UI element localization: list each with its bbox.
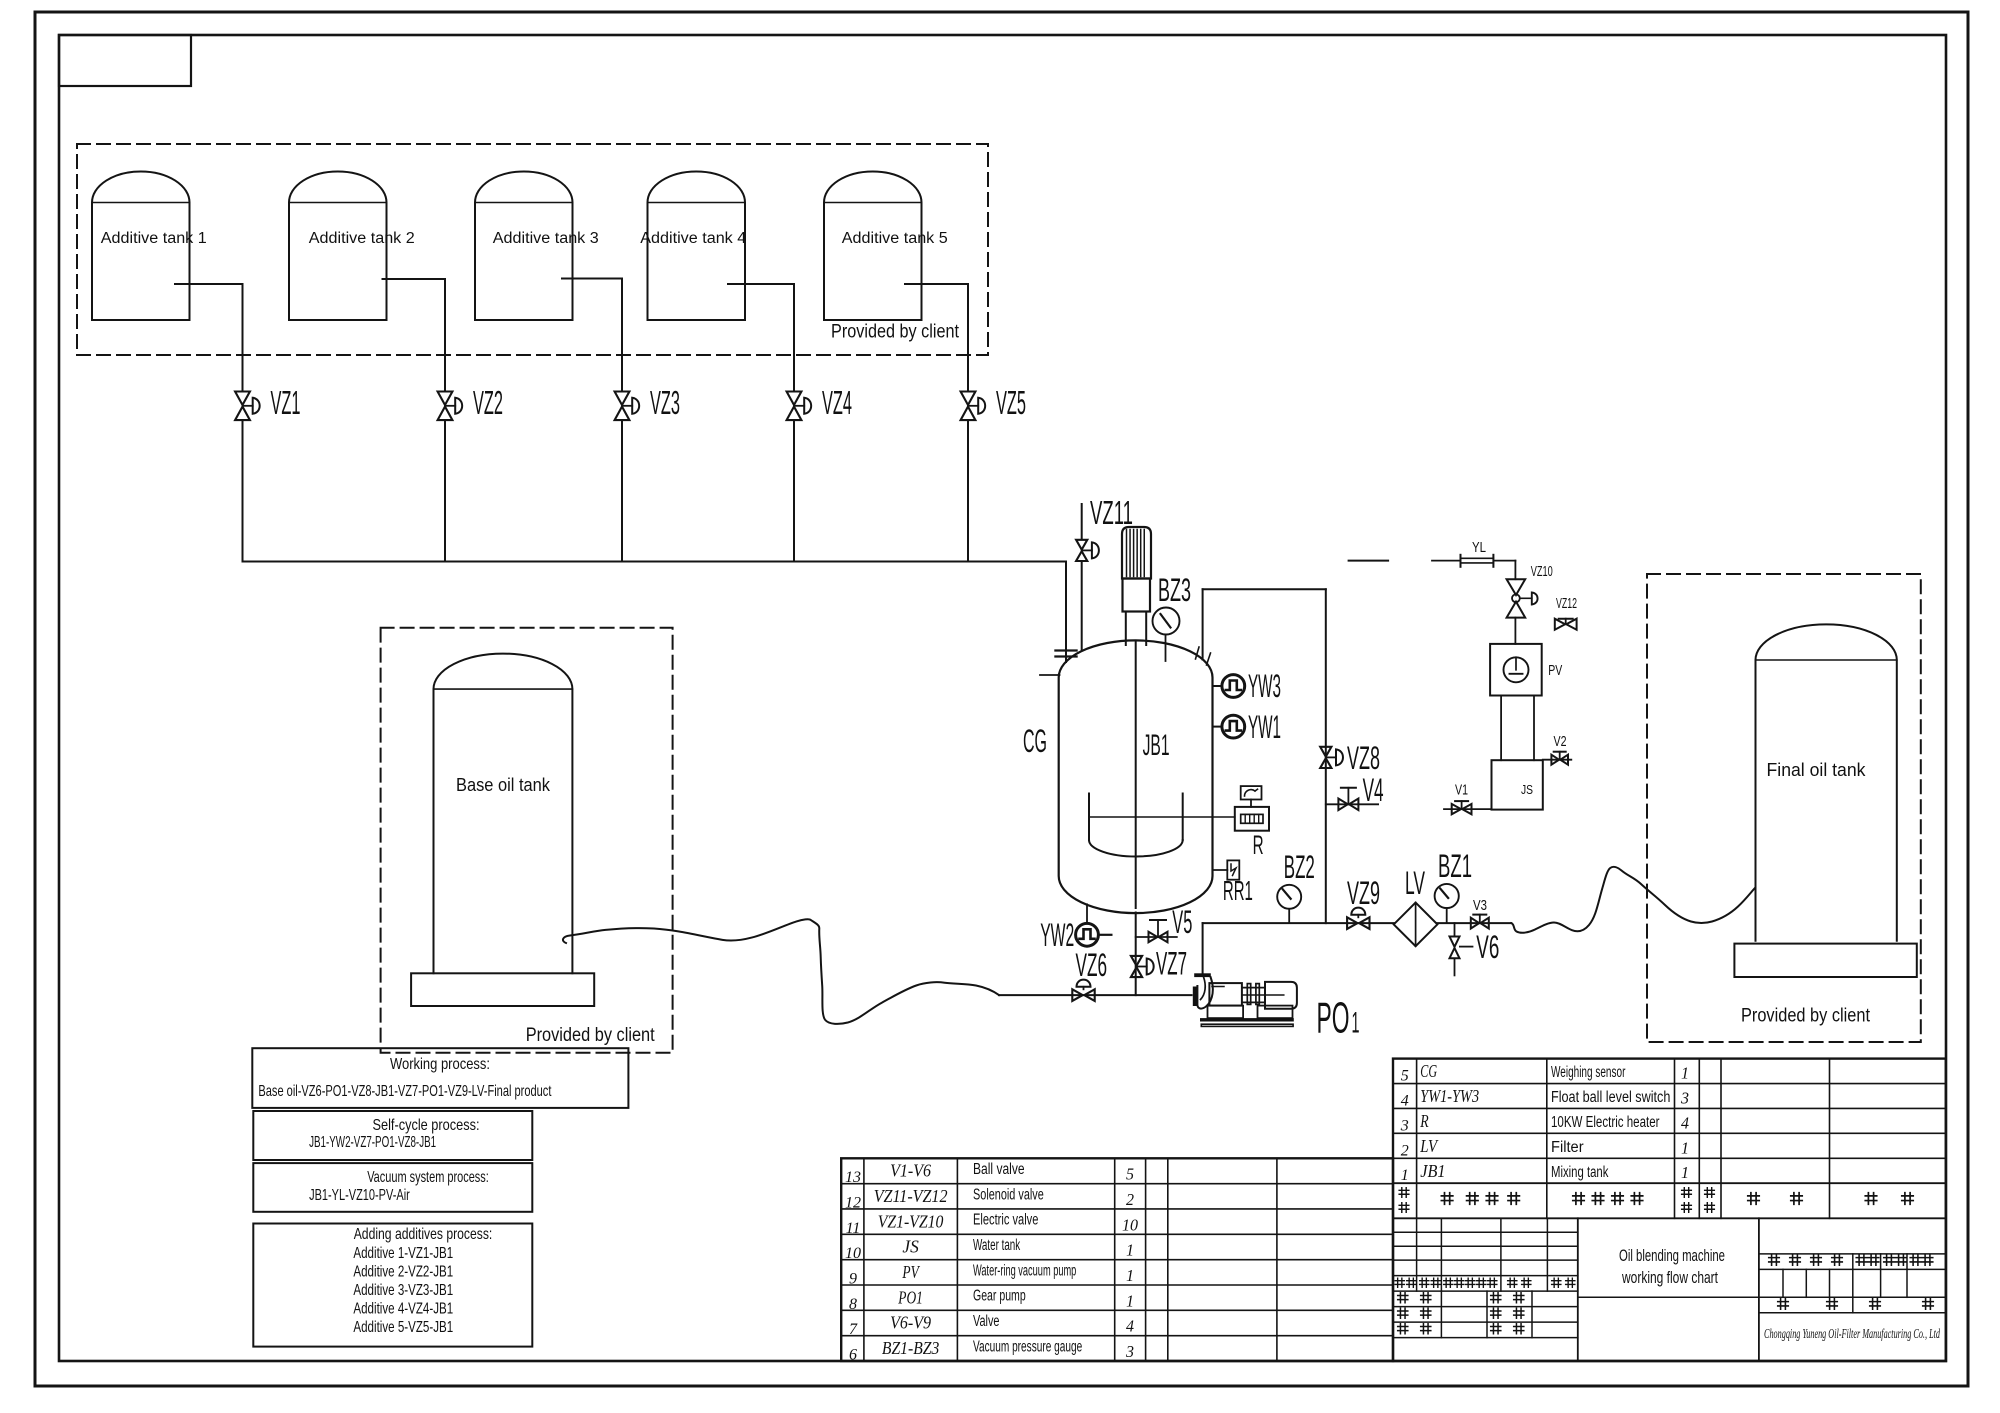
revision table grid [1393,1231,1578,1233]
svg-text:PV: PV [902,1262,921,1282]
pump suction flange [1193,987,1198,1007]
svg-text:1: 1 [1126,1291,1134,1310]
header zhongliang [1705,1188,1715,1198]
svg-text:Provided by client: Provided by client [1741,1006,1871,1027]
wire: main discharge pipe [1203,922,1512,924]
svg-text:YW1: YW1 [1248,709,1281,745]
solenoid valve VZ11 [1076,540,1087,550]
svg-text:Solenoid valve: Solenoid valve [973,1186,1044,1203]
svg-text:CG: CG [1420,1061,1437,1081]
additives process box [253,1224,532,1347]
wire: additive tank 4 outlet pipe [728,283,794,285]
header xuhao [1399,1188,1409,1198]
svg-text:2: 2 [1126,1190,1134,1209]
svg-text:VZ4: VZ4 [822,384,852,421]
svg-text:YL: YL [1472,540,1486,556]
vacuum process box [253,1163,532,1212]
svg-text:V1-V6: V1-V6 [890,1161,931,1181]
valve V6 [1450,937,1460,947]
svg-text:Filter: Filter [1551,1139,1584,1156]
wire: tank top to loop [1202,589,1204,659]
pump volute casing [1197,977,1212,1008]
wire: YW1 stub [1213,726,1223,728]
svg-text:V5: V5 [1172,904,1192,940]
PV pump symbol [1504,657,1529,682]
svg-text:4: 4 [1681,1113,1689,1132]
svg-text:Electric valve: Electric valve [973,1212,1038,1229]
pump body [1209,983,1242,1006]
middle parts table grid [841,1158,1393,1361]
svg-text:V6: V6 [1476,929,1499,965]
svg-text:Additive tank 4: Additive tank 4 [640,230,746,247]
svg-text:BZ3: BZ3 [1158,572,1191,608]
svg-text:R: R [1420,1111,1429,1131]
svg-text:4: 4 [1401,1092,1409,1109]
svg-text:VZ1: VZ1 [271,384,301,421]
svg-text:JS: JS [902,1237,919,1257]
dashed box: base oil tank provided by client [381,628,673,1053]
svg-text:5: 5 [1126,1165,1134,1184]
vacuum gauge BZ2 [1277,885,1301,909]
additive tank 4 vessel [648,172,746,321]
svg-text:10: 10 [1122,1215,1139,1234]
svg-text:Oil blending machine: Oil blending machine [1619,1246,1725,1265]
svg-text:JS: JS [1521,782,1533,797]
svg-text:10KW Electric heater: 10KW Electric heater [1551,1114,1660,1131]
svg-text:1: 1 [1681,1138,1689,1157]
wire: controller to heater [1250,800,1252,807]
header lingjianmingcheng [1573,1193,1584,1204]
svg-text:Weighing sensor: Weighing sensor [1551,1064,1625,1081]
wire: loop top horizontal [1203,588,1326,590]
wire: additive tank 5 outlet pipe [905,283,968,285]
additive tank 2 vessel [289,172,387,321]
additive tank 5 vessel [824,172,922,321]
jiaodui row [1398,1308,1408,1318]
svg-text:Water tank: Water tank [973,1237,1020,1254]
wire: YW3 stub [1213,685,1223,687]
wire: RR1 stub [1213,869,1228,871]
svg-text:YW2: YW2 [1040,917,1074,953]
mixing tank JB1 vessel [1059,640,1213,913]
agitator draft tube [1088,794,1090,841]
shejigongyi row [1398,1293,1408,1303]
svg-text:PO: PO [1317,994,1350,1043]
svg-text:BZ1: BZ1 [1438,848,1472,884]
wire: VZ1 to collector bus [242,420,244,561]
final oil tank pedestal [1734,944,1916,977]
revision row biaoji [1395,1278,1404,1287]
svg-text:Base oil tank: Base oil tank [456,775,551,795]
wire: V2 line [1543,759,1572,761]
svg-text:Additive 4-VZ4-JB1: Additive 4-VZ4-JB1 [353,1301,453,1318]
svg-text:VZ10: VZ10 [1531,564,1553,580]
svg-text:Chongqing Yuneng Oil-Filter Ma: Chongqing Yuneng Oil-Filter Manufacturin… [1764,1326,1940,1341]
svg-text:Additive 1-VZ1-JB1: Additive 1-VZ1-JB1 [353,1245,453,1262]
svg-text:Adding additives process:: Adding additives process: [354,1226,493,1243]
drawing title box [1758,1218,1760,1361]
svg-text:VZ1-VZ10: VZ1-VZ10 [878,1211,944,1231]
pump coupling [1242,987,1265,989]
svg-text:Provided by client: Provided by client [831,322,960,343]
working process box [252,1048,628,1108]
svg-text:Provided by client: Provided by client [526,1025,656,1046]
wire: loop right vertical [1325,589,1327,923]
electric valve VZ1 [235,392,250,406]
electric valve VZ10 [1507,579,1526,595]
svg-text:1: 1 [1681,1163,1689,1182]
electric valve VZ4 [787,392,802,406]
svg-text:VZ7: VZ7 [1156,946,1187,982]
wire: bus drop to mixing tank inlet [1065,562,1067,663]
svg-text:9: 9 [849,1270,857,1287]
ball valve V4 [1338,799,1347,811]
svg-text:JB1: JB1 [1420,1161,1445,1181]
electric valve VZ3 [615,392,630,406]
water tank JS box [1492,760,1543,809]
svg-text:VZ12: VZ12 [1556,596,1577,612]
svg-text:R: R [1253,830,1264,860]
wire: VZ11 to mixing tank top [1081,561,1083,650]
wire: BZ3 stem to tank [1165,635,1167,662]
wire: VZ3 to collector bus [621,420,623,561]
wire: YL inlet line [1432,560,1461,562]
wire: additive tank 1 outlet pipe [175,283,243,285]
svg-text:Valve: Valve [973,1313,1000,1330]
svg-text:working flow chart: working flow chart [1621,1268,1718,1287]
wire: VZ11 vent stub [1081,504,1083,539]
filter LV diamond [1394,903,1438,947]
pump foot left [1208,1006,1244,1019]
electric valve VZ9 [1347,917,1357,929]
svg-text:Final oil tank: Final oil tank [1767,760,1867,780]
wire: V6 drop [1454,923,1456,936]
ball valve V3 [1471,918,1479,929]
temperature sensor RR1 box [1227,860,1239,879]
pump discharge flange [1194,973,1211,977]
svg-text:2: 2 [1401,1142,1409,1159]
wire: VZ2 to collector bus [444,420,446,561]
title block parts grid [1393,1059,1946,1361]
ball valve V5 branch [1136,936,1177,938]
wire: flexible hose base tank to suction pipe [563,919,999,1024]
svg-text:10: 10 [845,1245,861,1262]
agitator motor lower housing [1123,579,1151,612]
heater controller box [1241,786,1262,799]
svg-text:YW3: YW3 [1248,668,1281,704]
svg-text:4: 4 [1126,1317,1134,1336]
svg-text:VZ11-VZ12: VZ11-VZ12 [874,1186,948,1206]
flame arrestor YL [1460,555,1462,567]
svg-text:LV: LV [1405,865,1425,901]
svg-text:VZ9: VZ9 [1347,875,1380,911]
wire: BZ2 stem [1288,909,1290,923]
wire: BZ1 stem [1446,908,1448,923]
svg-text:Working process:: Working process: [390,1056,490,1073]
svg-text:YW1-YW3: YW1-YW3 [1420,1086,1479,1106]
svg-text:Water-ring vacuum pump: Water-ring vacuum pump [973,1262,1076,1279]
svg-text:JB1-YL-VZ10-PV-Air: JB1-YL-VZ10-PV-Air [309,1187,410,1204]
vacuum gauge BZ1 [1435,884,1459,908]
svg-text:PO1: PO1 [898,1287,923,1307]
agitator shaft in tank [1135,641,1137,909]
title corner block top-left [59,35,191,86]
svg-text:VZ6: VZ6 [1076,947,1108,983]
wire: YL to VZ10 [1493,560,1515,562]
gongzhang row [1778,1299,1789,1310]
dashed box: final oil tank provided by client [1647,574,1921,1042]
water-ring vacuum pump PV box [1490,644,1542,696]
ball valve V5 [1149,932,1158,942]
svg-text:3: 3 [1400,1117,1409,1134]
svg-text:1: 1 [1681,1064,1689,1083]
svg-text:V6-V9: V6-V9 [890,1313,931,1333]
svg-text:VZ5: VZ5 [996,384,1026,421]
electric valve VZ5 [961,392,976,406]
svg-text:BZ2: BZ2 [1284,849,1315,885]
shenhe row [1398,1324,1408,1334]
svg-text:Vacuum system process:: Vacuum system process: [367,1169,489,1186]
svg-text:1: 1 [1126,1241,1134,1260]
svg-text:Gear pump: Gear pump [973,1288,1026,1305]
agitator shaft column [1125,612,1127,646]
wire: CG stub [1040,674,1060,676]
svg-text:Mixing tank: Mixing tank [1551,1164,1609,1181]
pump discharge pipe [1202,923,1204,973]
base oil tank vessel [434,654,573,974]
wire: VZ5 to collector bus [967,420,969,561]
svg-text:7: 7 [849,1321,858,1338]
svg-text:PV: PV [1548,663,1562,679]
svg-text:V3: V3 [1473,898,1487,914]
flange at mixing tank inlet [1055,649,1076,651]
svg-text:3: 3 [1125,1342,1134,1361]
electric heater R box [1235,807,1269,831]
wire: VZ4 to collector bus [793,420,795,561]
PV stand column [1500,696,1502,761]
svg-text:Base oil-VZ6-PO1-VZ8-JB1-VZ7-P: Base oil-VZ6-PO1-VZ8-JB1-VZ7-PO1-VZ9-LV-… [258,1083,551,1100]
svg-text:VZ3: VZ3 [650,384,680,421]
svg-text:Additive tank 3: Additive tank 3 [493,230,599,247]
svg-text:1: 1 [1352,1007,1360,1040]
float ball level switch YW3 [1222,675,1245,698]
pump foot right [1258,1006,1293,1019]
wire: tank drain to pump suction [999,994,1192,996]
svg-text:Vacuum pressure gauge: Vacuum pressure gauge [973,1338,1082,1355]
wire: additive tank 3 outlet pipe [562,278,622,280]
svg-text:VZ2: VZ2 [473,384,503,421]
svg-text:1: 1 [1126,1266,1134,1285]
svg-text:Additive 5-VZ5-JB1: Additive 5-VZ5-JB1 [353,1319,453,1336]
right info grid [1759,1253,1946,1255]
header tuyangdaihao [1441,1193,1452,1204]
wire: additive collector bus [243,561,1067,563]
dashed box: additive tanks provided by client [77,144,988,355]
solenoid valve VZ8 [1320,747,1331,757]
svg-text:Ball valve: Ball valve [973,1161,1025,1178]
self-cycle process box [253,1111,532,1160]
pump base plate [1200,1018,1294,1021]
float ball level switch YW1 [1222,715,1245,738]
svg-text:JB1: JB1 [1143,729,1170,762]
wire: V4 branch [1326,803,1378,805]
svg-text:1: 1 [1401,1167,1409,1184]
svg-text:Additive tank 5: Additive tank 5 [842,230,948,247]
svg-text:Float ball level switch: Float ball level switch [1551,1089,1670,1106]
wire: VZ10 to PV [1514,618,1516,644]
electric valve VZ6 [1072,989,1082,1001]
header shuliang [1682,1188,1692,1198]
svg-text:V2: V2 [1554,734,1567,750]
pump motor [1265,982,1297,1009]
wire: YW2 stem [1086,904,1088,923]
agitator motor hatched housing [1122,527,1151,579]
ball valve V1 [1452,804,1461,814]
svg-text:CG: CG [1023,723,1047,759]
header beizhu [1865,1193,1876,1204]
vacuum gauge BZ3 [1153,608,1180,635]
wire: broken vacuum line dash [1349,560,1389,562]
svg-text:8: 8 [849,1296,857,1313]
svg-text:LV: LV [1419,1136,1438,1156]
header cailiao [1748,1193,1759,1204]
float ball level switch YW2 [1076,923,1099,946]
svg-text:Additive tank 2: Additive tank 2 [309,230,415,247]
svg-text:5: 5 [1401,1068,1409,1085]
svg-text:V1: V1 [1455,783,1468,799]
svg-text:6: 6 [849,1347,857,1364]
wire: liquid level line to heater [1089,816,1235,818]
final oil tank vessel [1756,624,1897,940]
ball valve VZ12 [1555,619,1565,630]
svg-text:BZ1-BZ3: BZ1-BZ3 [882,1338,940,1358]
svg-text:RR1: RR1 [1223,875,1253,906]
svg-text:Additive 3-VZ3-JB1: Additive 3-VZ3-JB1 [353,1282,453,1299]
tuyangbiaoji header [1769,1255,1780,1266]
wire: YW2 tick [1099,934,1112,936]
svg-text:Additive 2-VZ2-JB1: Additive 2-VZ2-JB1 [353,1264,453,1281]
wire: V1 line [1444,808,1492,810]
ball valve V2 [1551,755,1559,765]
svg-text:VZ11: VZ11 [1090,494,1133,531]
svg-text:Additive tank 1: Additive tank 1 [101,230,207,247]
svg-text:11: 11 [846,1220,861,1237]
svg-text:Self-cycle process:: Self-cycle process: [373,1117,480,1134]
svg-text:3: 3 [1680,1088,1689,1107]
additive tank 1 vessel [92,172,190,321]
mixing tank dome weld ticks [1196,647,1200,659]
additive tank 3 vessel [475,172,573,321]
svg-text:JB1-YW2-VZ7-PO1-VZ8-JB1: JB1-YW2-VZ7-PO1-VZ8-JB1 [309,1134,436,1151]
svg-text:12: 12 [845,1194,861,1211]
base oil tank pedestal [411,973,594,1006]
svg-text:13: 13 [845,1169,861,1186]
heater element symbol [1241,814,1263,823]
wire: VZ7 drop pipe [1135,913,1137,996]
wire: additive tank 2 outlet pipe [383,278,446,280]
electric valve VZ2 [438,392,453,406]
svg-text:VZ8: VZ8 [1347,740,1380,776]
svg-text:V4: V4 [1363,772,1384,808]
wire: flexible hose to final oil tank [1511,867,1755,933]
solenoid valve VZ7 [1131,956,1142,966]
